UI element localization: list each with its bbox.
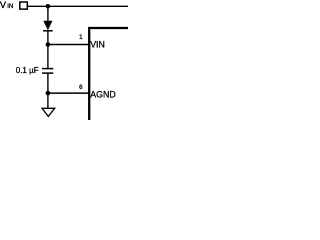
wire VIN rail to right edge (28, 5, 128, 7)
svg-text:1: 1 (79, 34, 83, 41)
node junction pin1 (46, 42, 51, 47)
svg-text:IN: IN (7, 3, 13, 10)
svg-text:V: V (0, 0, 7, 10)
svg-text:AGND: AGND (90, 89, 115, 99)
svg-text:0.1 µF: 0.1 µF (16, 66, 39, 75)
wire pin 1 (48, 44, 89, 46)
ground (42, 108, 55, 116)
wire diode cathode to pin1 node (47, 31, 49, 45)
svg-text:6: 6 (79, 84, 83, 91)
wire pin 6 (48, 92, 89, 94)
wire node to capacitor (47, 45, 49, 69)
diode D1 (43, 21, 53, 31)
IC U1 outline (partial) (89, 28, 128, 120)
terminal VIN input box (20, 2, 28, 9)
wire node to ground (47, 93, 49, 108)
node junction top (46, 4, 51, 9)
wire capacitor to ground node (47, 73, 49, 93)
wire junction to diode anode (47, 6, 49, 21)
node junction ground (46, 91, 51, 96)
svg-text:VIN: VIN (90, 40, 105, 50)
capacitor C1 (42, 69, 53, 74)
